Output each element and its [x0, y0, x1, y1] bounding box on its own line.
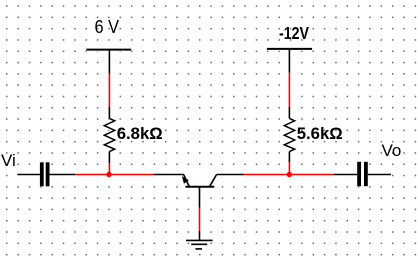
capacitor C1 plate 1 — [40, 162, 44, 186]
capacitor C2 plate 1 — [357, 162, 361, 186]
wire: base down (black) — [199, 187, 201, 208]
wire: to transistor emitter (black) — [154, 174, 184, 176]
wire: -12V bar down (black) — [288, 49, 290, 73]
wire: R2 bottom stub (black) — [288, 152, 290, 162]
transistor Q1 base bar — [185, 186, 214, 188]
transistor Q1 collector diagonal — [210, 175, 217, 187]
transistor Q1 emitter diagonal — [184, 175, 190, 187]
supply bar -12V — [267, 48, 312, 50]
transistor Q1 emitter arrow — [182, 176, 189, 184]
ground symbol — [186, 240, 213, 249]
wire halo layer (hides grid dots under wires) — [17, 49, 391, 249]
svg-text:Vi: Vi — [1, 151, 16, 170]
wire: to ground (black) — [199, 231, 201, 240]
supply bar 6V — [86, 49, 131, 51]
capacitor C1 plate 2 — [46, 162, 50, 186]
wire: Vo output lead — [368, 174, 391, 176]
wire: base down (red) — [199, 208, 201, 232]
svg-text:6 V: 6 V — [95, 17, 120, 37]
wire: R2 top stub — [288, 107, 290, 118]
wire: R1 bottom stub (black) — [108, 152, 110, 163]
svg-text:Vo: Vo — [382, 141, 402, 160]
wire: red emitter net — [75, 174, 154, 176]
svg-text:5.6kΩ: 5.6kΩ — [297, 124, 343, 143]
wire: R1 top stub — [108, 107, 110, 118]
resistor R1 zigzag — [104, 118, 114, 151]
resistor R2 zigzag — [284, 118, 294, 151]
junction node (collector) — [287, 172, 292, 177]
wire: red collector net — [244, 174, 334, 176]
wire: -12V to R2 (red) — [288, 73, 290, 107]
wire: collector lead (black) — [217, 174, 244, 176]
wire: to C2 (black) — [334, 174, 357, 176]
wire: C1 to red segment — [50, 174, 76, 176]
junction node (emitter) — [106, 172, 111, 177]
wire: 6V to R1 (red) — [108, 74, 110, 108]
wire: 6V bar down (black) — [108, 50, 110, 74]
svg-text:-12V: -12V — [279, 23, 309, 43]
wire: R1 to node (red) — [108, 163, 110, 175]
wire: Vi input lead — [17, 174, 40, 176]
svg-text:6.8kΩ: 6.8kΩ — [117, 124, 163, 143]
capacitor C2 plate 2 — [364, 162, 368, 186]
wire: R2 to node (red) — [288, 162, 290, 175]
